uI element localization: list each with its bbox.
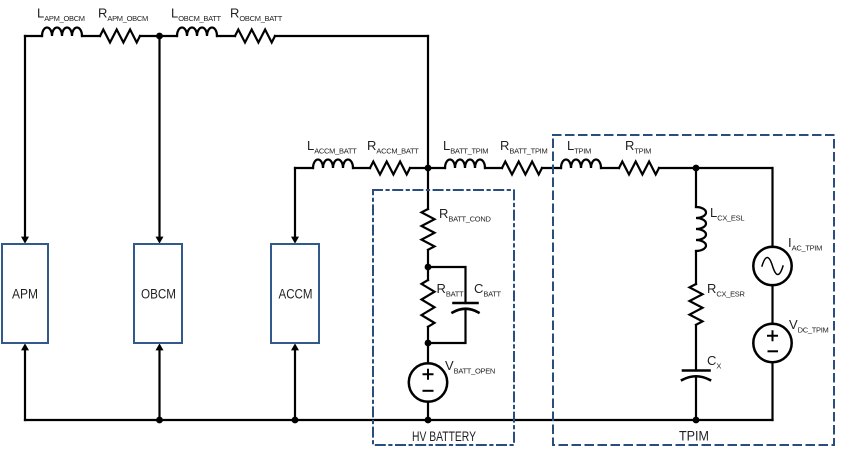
- source V2 V_DC_TPIM circle: [753, 324, 791, 362]
- svg-text:LCX_ESL: LCX_ESL: [710, 205, 744, 223]
- wire top bus to right corner: [275, 35, 428, 37]
- wire right branch down from mid bus: [771, 168, 773, 247]
- source V1 V_BATT_OPEN circle: [409, 363, 447, 401]
- wire OBCM return vertical: [158, 350, 160, 420]
- svg-text:RACCM_BATT: RACCM_BATT: [367, 138, 419, 156]
- wire APM return vertical: [24, 350, 26, 420]
- arrowhead into APM bottom: [21, 343, 29, 350]
- svg-text:LOBCM_BATT: LOBCM_BATT: [171, 6, 222, 24]
- wire: [353, 167, 370, 169]
- svg-text:CX: CX: [707, 353, 721, 371]
- wire: [542, 167, 561, 169]
- wire: [485, 167, 502, 169]
- block ACCM: [271, 244, 319, 343]
- wire battery branch upper: [427, 168, 429, 209]
- junction node mid bus x=696: [693, 165, 700, 172]
- junction node bottom bus x=428: [425, 417, 432, 424]
- resistor R3 R_ACCM_BATT: [370, 162, 410, 175]
- inductor L5 L_TPIM: [561, 160, 601, 169]
- junction node battery lower: [425, 340, 432, 347]
- wire: [695, 325, 697, 370]
- wire: [427, 250, 429, 267]
- junction node battery upper: [425, 264, 432, 271]
- arrowhead into ACCM bottom: [291, 343, 299, 350]
- wire below battery source: [427, 402, 429, 421]
- wire vertical drop from top bus to mid bus: [427, 36, 429, 168]
- resistor R7 R_BATT vertical: [422, 280, 435, 327]
- wire: [427, 327, 429, 343]
- svg-text:RAPM_OBCM: RAPM_OBCM: [98, 6, 148, 24]
- wire bottom bus y=420: [25, 419, 773, 421]
- svg-text:HV BATTERY: HV BATTERY: [412, 429, 476, 444]
- junction node bottom bus x=696: [693, 417, 700, 424]
- svg-text:VBATT_OPEN: VBATT_OPEN: [445, 358, 495, 376]
- block APM: [2, 244, 48, 343]
- wire below C_X: [695, 377, 697, 420]
- svg-text:LTPIM: LTPIM: [567, 138, 591, 156]
- wire from C_BATT down and back to node: [428, 310, 466, 344]
- arrowhead into APM top: [21, 237, 29, 244]
- wire: [82, 35, 100, 37]
- svg-text:LAPM_OBCM: LAPM_OBCM: [37, 6, 85, 24]
- svg-text:OBCM: OBCM: [141, 287, 176, 302]
- source V2 minus sign: [769, 350, 778, 352]
- wire OBCM feed vertical: [158, 36, 160, 237]
- wire mid bus left segment: [295, 167, 313, 169]
- wire between sources: [771, 285, 773, 324]
- wire mid bus to right corner: [659, 167, 772, 169]
- resistor R1 R_APM_OBCM: [100, 30, 140, 43]
- boundary HV BATTERY dash-dot box: [373, 190, 514, 445]
- svg-text:RBATT_TPIM: RBATT_TPIM: [500, 138, 547, 156]
- resistor R6 R_BATT_COND vertical: [422, 209, 435, 250]
- source V1 minus sign: [424, 390, 433, 392]
- svg-text:RBATT: RBATT: [437, 281, 465, 299]
- wire to battery source: [427, 343, 429, 364]
- resistor R2 R_OBCM_BATT: [235, 30, 275, 43]
- wire below DC source: [771, 362, 773, 420]
- svg-text:RTPIM: RTPIM: [625, 138, 651, 156]
- wire ACCM return vertical: [294, 350, 296, 420]
- resistor R5 R_TPIM: [619, 162, 659, 175]
- inductor L1 L_APM_OBCM: [42, 28, 82, 36]
- capacitor C2 C_X curved plate: [682, 376, 710, 380]
- source I1 I_AC_TPIM circle: [753, 247, 791, 285]
- wire: [410, 167, 445, 169]
- capacitor C1 C_BATT top plate: [454, 302, 478, 305]
- svg-text:VDC_TPIM: VDC_TPIM: [789, 317, 829, 335]
- junction node mid bus x=428: [425, 165, 432, 172]
- boundary TPIM dashed box: [553, 135, 834, 445]
- junction node bottom bus x=159.5: [156, 417, 163, 424]
- source I1 sine wave: [762, 258, 783, 275]
- svg-text:IAC_TPIM: IAC_TPIM: [788, 235, 822, 253]
- wire top bus y=36 from (25,36) to (42,36): [25, 35, 42, 37]
- inductor L2 L_OBCM_BATT: [177, 28, 217, 36]
- arrowhead into OBCM bottom: [156, 343, 164, 350]
- junction node on top bus at x=159.5: [156, 33, 163, 40]
- source V1 plus sign: [424, 370, 433, 379]
- wire: [427, 267, 429, 280]
- junction node bottom bus x=295: [292, 417, 299, 424]
- resistor R4 R_BATT_TPIM: [502, 162, 542, 175]
- capacitor C1 C_BATT curved plate: [453, 309, 479, 313]
- source V2 plus sign: [768, 331, 777, 340]
- resistor R8 R_CX_ESR vertical: [690, 284, 703, 325]
- arrowhead into ACCM top: [291, 237, 299, 244]
- svg-text:LBATT_TPIM: LBATT_TPIM: [443, 138, 488, 156]
- svg-text:ACCM: ACCM: [279, 287, 313, 302]
- inductor L3 L_ACCM_BATT: [313, 160, 353, 169]
- wire ACCM feed vertical: [294, 168, 296, 237]
- wire: [601, 167, 619, 169]
- svg-text:CBATT: CBATT: [474, 281, 502, 299]
- svg-text:RBATT_COND: RBATT_COND: [439, 206, 491, 224]
- wire: [695, 251, 697, 284]
- svg-text:LACCM_BATT: LACCM_BATT: [307, 138, 357, 156]
- wire TPIM cap branch upper: [695, 168, 697, 207]
- wire APM feed vertical: [24, 36, 26, 237]
- svg-text:TPIM: TPIM: [679, 429, 709, 444]
- svg-text:RCX_ESR: RCX_ESR: [707, 281, 745, 299]
- wire: [217, 35, 235, 37]
- inductor L4 L_BATT_TPIM: [445, 160, 485, 169]
- capacitor C2 C_X top plate: [683, 369, 710, 372]
- inductor L6 L_CX_ESL vertical: [696, 207, 706, 251]
- wire: [140, 35, 177, 37]
- arrowhead into OBCM top: [156, 237, 164, 244]
- block OBCM: [134, 244, 182, 343]
- wire parallel branch to C_BATT top: [428, 267, 466, 303]
- svg-text:ROBCM_BATT: ROBCM_BATT: [230, 6, 283, 24]
- svg-text:APM: APM: [12, 287, 38, 302]
